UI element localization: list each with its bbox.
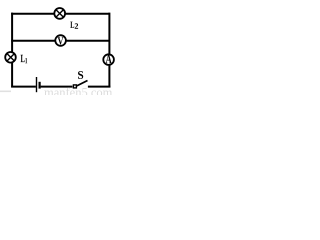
battery cell [37,77,40,92]
wire left vertical [11,13,13,88]
wire bottom right segment [88,86,111,88]
label S [78,71,83,79]
lamp L1 [5,52,16,63]
label L1 [21,55,28,64]
wire right vertical [108,13,110,88]
svg-text:manfen5.com: manfen5.com [44,86,113,96]
wire top branch [11,13,109,15]
wire voltmeter branch [11,40,109,42]
lamp L2 [54,8,65,19]
switch S [73,81,87,88]
ammeter A [103,54,114,65]
watermark text [0,86,113,100]
wire bottom left segment [11,86,36,88]
wire bottom middle segment [41,86,73,88]
label L2 [70,22,78,29]
voltmeter V [55,35,66,46]
